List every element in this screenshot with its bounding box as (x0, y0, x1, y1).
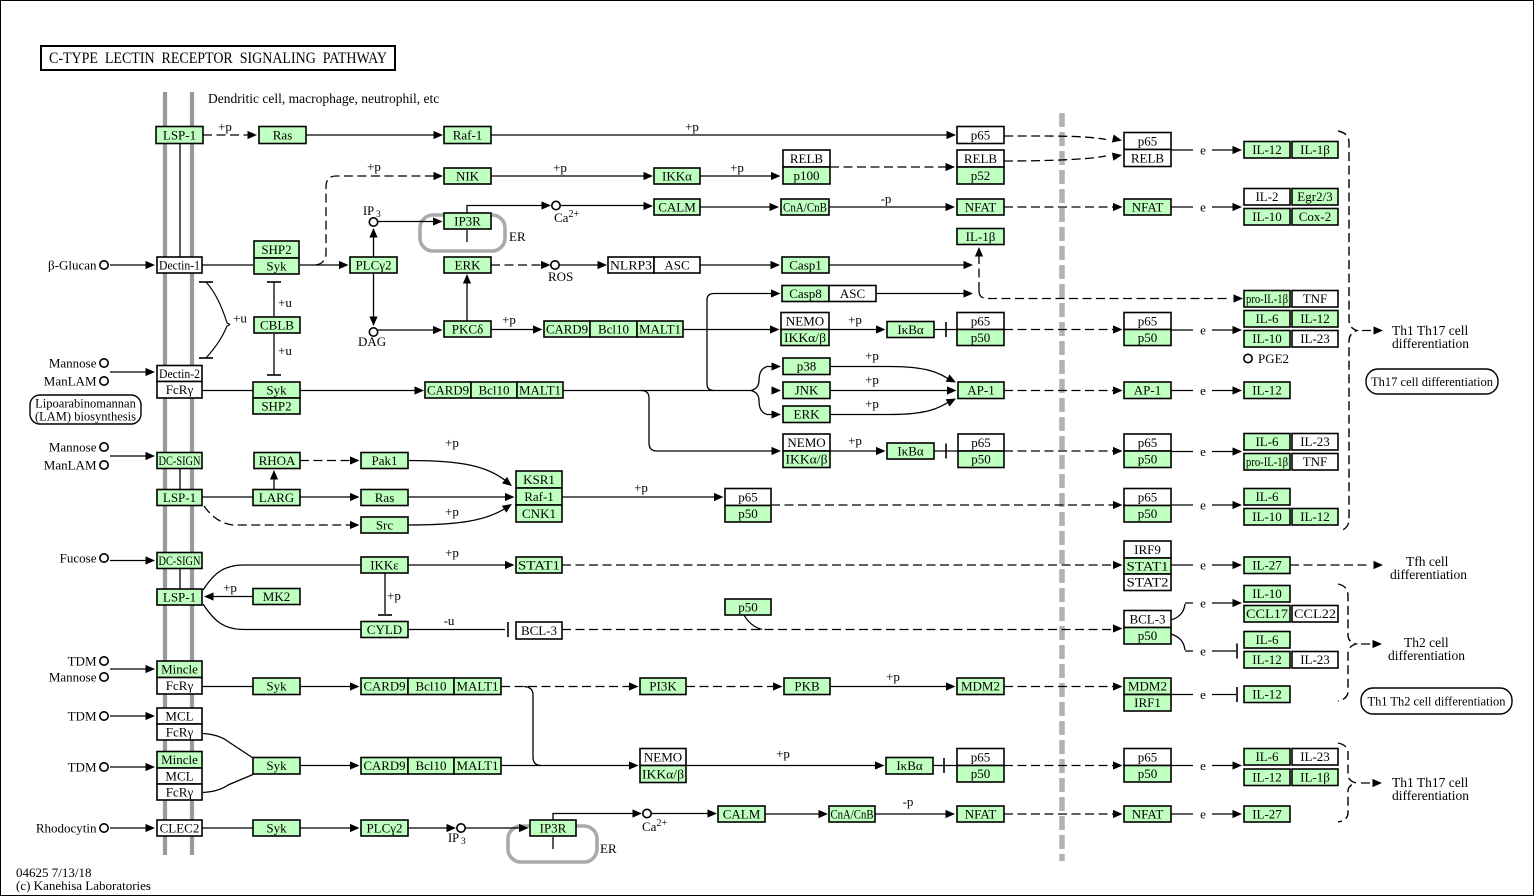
wire ERK to ROS (dashed) (491, 264, 544, 266)
svg-text:IL-6: IL-6 (1255, 311, 1279, 326)
svg-text:ERK: ERK (455, 257, 482, 272)
svg-text:e: e (1200, 644, 1206, 659)
protein p65 d (957, 749, 1004, 766)
nuclear p65 4 (1124, 489, 1171, 506)
svg-text:differentiation: differentiation (1392, 788, 1469, 803)
wire LSP-1b to Src (dashed) (204, 506, 353, 525)
node ROS (551, 261, 559, 269)
wire MK2 to LSP-1c (+p) (210, 596, 253, 598)
svg-text:IL-12: IL-12 (1300, 311, 1330, 326)
svg-text:differentiation: differentiation (1388, 648, 1465, 663)
e arrow to IL-12/IL-1b (1171, 149, 1193, 151)
protein Syk 3 (253, 678, 300, 695)
svg-text:IL-10: IL-10 (1252, 509, 1282, 524)
svg-text:IL-27: IL-27 (1252, 558, 1282, 573)
wire LSP-1b to LARG (202, 496, 253, 498)
cytokine IL-23 c (1292, 652, 1338, 669)
wire CLEC2 to Syk5 (202, 827, 253, 829)
protein Casp8 (782, 286, 829, 302)
svg-text:IL-10: IL-10 (1252, 331, 1282, 346)
protein Syk 2 (253, 382, 300, 398)
protein ASC 2 (829, 286, 876, 302)
svg-text:STAT1: STAT1 (518, 557, 560, 572)
svg-text:IL-1β: IL-1β (1300, 142, 1330, 157)
svg-text:+p: +p (776, 746, 790, 761)
svg-text:p65: p65 (971, 313, 991, 328)
protein p65 c (725, 489, 771, 506)
svg-text:IL-1β: IL-1β (966, 229, 996, 244)
Rhodocytin ligand (100, 824, 108, 832)
svg-text:CARD9: CARD9 (546, 321, 588, 336)
svg-text:p65: p65 (971, 749, 991, 764)
svg-text:Casp1: Casp1 (789, 257, 822, 272)
svg-text:-p: -p (881, 191, 892, 206)
wire Ras to Raf-1 (306, 134, 437, 136)
wire ASC to Casp1 (700, 264, 774, 266)
svg-text:Syk: Syk (266, 758, 287, 773)
svg-text:MALT1: MALT1 (457, 679, 499, 694)
cytokine IL-10 b (1244, 331, 1290, 348)
protein MALT1 2 (517, 382, 563, 398)
protein CALM 2 (718, 806, 765, 822)
dashed rail up to IL-1b (978, 252, 980, 291)
e inhibition to IL-12f (1171, 694, 1193, 696)
wire FcRg4 curve to Syk4 (203, 775, 253, 793)
protein PI3K (640, 678, 686, 695)
svg-text:AP-1: AP-1 (1134, 383, 1161, 398)
cytokine IL-10 d (1244, 586, 1290, 603)
protein MALT1 4 (454, 758, 501, 775)
cytokine IL-12 c (1244, 382, 1290, 399)
svg-text:PI3K: PI3K (649, 679, 677, 694)
wire to MCL (110, 715, 147, 717)
svg-text:Syk: Syk (266, 679, 287, 694)
e arrow to IL-6e group (1171, 765, 1193, 767)
svg-text:Egr2/3: Egr2/3 (1297, 189, 1332, 204)
protein CARD9 2 (425, 382, 471, 398)
wire IKKa to RELB/p100 (700, 175, 774, 177)
wire MALT1-2 rail (563, 390, 751, 392)
wire CALM2 to CnA/CnB2 (765, 813, 822, 815)
svg-text:Syk: Syk (266, 820, 287, 835)
nuclear BCL-3 (1124, 611, 1171, 628)
BCL-3/p50 fork upper (1171, 603, 1193, 620)
protein Bcl10 1 (590, 321, 637, 337)
cytokine IL-6 a (1244, 311, 1290, 328)
svg-text:STAT2: STAT2 (1127, 575, 1169, 590)
protein SHP2 b (253, 398, 300, 414)
svg-text:IL-10: IL-10 (1252, 209, 1282, 224)
svg-text:differentiation: differentiation (1392, 336, 1469, 351)
protein ERK 1 (444, 257, 491, 273)
svg-text:e: e (1200, 383, 1206, 398)
svg-text:p50: p50 (1138, 766, 1158, 781)
wire PKCd up to ERK (466, 278, 468, 321)
svg-text:Dendritic cell, macrophage, ne: Dendritic cell, macrophage, neutrophil, … (208, 91, 439, 106)
svg-text:p100: p100 (794, 168, 820, 183)
CBLB upper link (267, 281, 281, 283)
protein Ras 2 (361, 490, 408, 506)
svg-text:RELB: RELB (1131, 150, 1165, 165)
svg-text:+p: +p (223, 580, 237, 595)
wire MALT1-4 to NEMO-3 (501, 765, 632, 767)
svg-text:Casp8: Casp8 (789, 286, 822, 301)
wire PI3K to PKB (dashed) (686, 686, 776, 688)
svg-text:e: e (1200, 558, 1206, 573)
wire NEMO-3 to IkBa (+p) (686, 765, 878, 767)
wire p65/p50 to nucleus row5 (dashed) (1004, 329, 1116, 331)
svg-text:CARD9: CARD9 (364, 679, 406, 694)
svg-text:Raf-1: Raf-1 (453, 127, 483, 142)
wire PLCg2 down to DAG (373, 274, 375, 321)
svg-text:+p: +p (865, 348, 879, 363)
svg-text:SHP2: SHP2 (261, 398, 291, 413)
wire LSP-1 to Dectin-1 link (179, 143, 181, 257)
protein CYLD (361, 622, 408, 638)
ER organelle 1 (420, 215, 505, 251)
wire Ras2 to Raf-1b (408, 496, 508, 498)
nuclear p50 2 (1124, 330, 1171, 346)
svg-text:BCL-3: BCL-3 (521, 623, 557, 638)
svg-text:p50: p50 (1138, 628, 1158, 643)
protein ASC 1 (654, 257, 700, 273)
svg-text:PLCγ2: PLCγ2 (366, 820, 402, 835)
dashed rail to pro-IL-1b (979, 291, 1231, 299)
svg-text:CBLB: CBLB (260, 317, 294, 332)
svg-text:FcRγ: FcRγ (166, 678, 194, 693)
svg-text:Pak1: Pak1 (372, 453, 398, 468)
svg-text:IL-6: IL-6 (1255, 749, 1279, 764)
svg-text:MALT1: MALT1 (457, 758, 499, 773)
svg-text:IKKα/β: IKKα/β (786, 452, 828, 467)
cytokine IL-6 e (1244, 749, 1290, 766)
protein p50 b (958, 451, 1004, 468)
protein p65 b (958, 434, 1004, 451)
nuclear p50 4 (1124, 506, 1171, 523)
svg-text:IRF9: IRF9 (1134, 542, 1161, 557)
svg-text:+p: +p (685, 119, 699, 134)
svg-text:ASC: ASC (840, 286, 865, 301)
svg-text:NFAT: NFAT (1132, 199, 1164, 214)
protein NFAT 1 (957, 199, 1004, 215)
protein SHP2 a (254, 241, 299, 258)
wire Syk5 to PLCg2b (300, 827, 353, 829)
protein IKKab 1 (781, 330, 829, 346)
e arrow to IL-6b group (1171, 451, 1193, 453)
wire IL-27 to Tfh (dashed) (1290, 564, 1371, 566)
protein PLCg2 a (350, 257, 397, 273)
svg-text:LSP-1: LSP-1 (163, 589, 196, 604)
title box (41, 46, 395, 70)
IkBa1 inhibition tick (934, 329, 956, 331)
wire DC-SIGN to LSP-1b link (179, 468, 181, 489)
svg-text:+p: +p (730, 160, 744, 175)
pathway box Th17 cell differentiation (1366, 369, 1498, 394)
svg-text:MDM2: MDM2 (1128, 679, 1167, 694)
svg-text:FcRγ: FcRγ (166, 784, 194, 799)
receptor MCL 2 (157, 768, 202, 784)
wire Dectin-1 to Syk (202, 264, 253, 266)
svg-text:p50: p50 (738, 506, 758, 521)
svg-text:Mannose: Mannose (49, 440, 97, 455)
svg-text:Raf-1: Raf-1 (524, 489, 554, 504)
protein Raf-1 b (516, 488, 562, 505)
protein IkBa 1 (887, 322, 934, 338)
protein IkBa 3 (886, 758, 933, 775)
IkBa2 inhibition tick (934, 450, 957, 452)
svg-text:(LAM) biosynthesis: (LAM) biosynthesis (35, 409, 136, 423)
svg-text:e: e (1200, 596, 1206, 611)
svg-text:IκBα: IκBα (896, 758, 923, 773)
brace Th2 (1338, 584, 1356, 701)
svg-text:+p: +p (848, 312, 862, 327)
svg-text:IL-23: IL-23 (1300, 331, 1330, 346)
Mannose ligand 3 (100, 673, 108, 681)
wire MALT1-3 to PI3K (dashed) (501, 686, 632, 688)
cytokine TNF b (1292, 454, 1338, 471)
svg-text:IL-12: IL-12 (1252, 770, 1282, 785)
receptor LSP-1 c (157, 589, 202, 605)
svg-text:-u: -u (444, 613, 455, 628)
e arrow to IL-6a group (1171, 329, 1193, 331)
svg-text:IL-6: IL-6 (1255, 434, 1279, 449)
svg-text:+p: +p (445, 504, 459, 519)
svg-text:IP3R: IP3R (540, 820, 567, 835)
svg-text:CARD9: CARD9 (427, 382, 469, 397)
svg-text:NFAT: NFAT (1132, 806, 1164, 821)
svg-text:IKKα/β: IKKα/β (784, 330, 826, 345)
wire LSP-1c down to CYLD (203, 604, 361, 630)
protein PKB (784, 678, 830, 695)
svg-text:C-TYPE LECTIN RECEPTOR SIGN: C-TYPE LECTIN RECEPTOR SIGNALING PATHWAY (49, 50, 387, 67)
protein RHOA (254, 453, 300, 469)
svg-text:3: 3 (376, 210, 381, 220)
svg-text:CYLD: CYLD (367, 622, 402, 637)
nuclear p65 2 (1124, 313, 1171, 330)
wire IP3R-2 to Ca2+ 2 (553, 814, 636, 821)
wire AP-1 to nucleus (dashed) (1004, 390, 1116, 392)
svg-text:e: e (1200, 758, 1206, 773)
svg-text:NIK: NIK (456, 168, 480, 183)
svg-text:MCL: MCL (165, 768, 193, 783)
nuclear p65 5 (1124, 749, 1171, 766)
protein p50 d (957, 766, 1004, 783)
svg-text:p65: p65 (738, 489, 758, 504)
svg-text:3: 3 (461, 837, 466, 847)
receptor FcRg 3 (157, 724, 202, 740)
nuclear membrane (dashed) (1059, 113, 1065, 861)
svg-text:p38: p38 (797, 359, 817, 374)
e arrow to IL-12c (1171, 390, 1193, 392)
svg-text:p50: p50 (971, 452, 991, 467)
svg-text:+p: +p (634, 480, 648, 495)
wire Syk3 to CARD9-3 (300, 686, 353, 688)
svg-text:p65: p65 (1138, 133, 1158, 148)
cytokine IL-23 d (1292, 749, 1338, 766)
svg-text:p52: p52 (971, 168, 991, 183)
svg-text:IκBα: IκBα (897, 443, 924, 458)
svg-text:e: e (1200, 687, 1206, 702)
wire junction up to Casp8 (707, 294, 774, 330)
wire CnA/CnB to NFAT (829, 206, 949, 208)
svg-text:ROS: ROS (548, 269, 573, 284)
protein p50 a (957, 330, 1004, 346)
protein Bcl10 4 (408, 758, 454, 775)
wire IKKe to STAT1 (+p) (408, 564, 508, 566)
svg-text:+u: +u (233, 311, 247, 326)
cytokine IL-12 b (1292, 311, 1338, 328)
PGE2 node (1244, 354, 1252, 362)
wire NIK to IKKa (491, 175, 647, 177)
protein IL-1b float (957, 229, 1004, 245)
svg-text:pro-IL-1β: pro-IL-1β (1246, 291, 1288, 306)
svg-text:Dectin-1: Dectin-1 (159, 257, 200, 272)
fork curve upper to CBLB (206, 282, 230, 325)
svg-text:TNF: TNF (1303, 454, 1328, 469)
nuclear p65 1 (1124, 133, 1171, 150)
svg-text:FcRγ: FcRγ (166, 382, 194, 397)
wire p65/p50 row6 to nucleus (dashed) (1004, 450, 1116, 452)
protein NEMO 1 (781, 313, 829, 330)
svg-text:LSP-1: LSP-1 (163, 490, 196, 505)
svg-text:MCL: MCL (165, 708, 193, 723)
protein NEMO 3 (640, 749, 686, 766)
wire RHOA to Pak1 (dashed) (300, 460, 353, 462)
cytokine IL-12 f (1244, 686, 1290, 703)
svg-text:IL-2: IL-2 (1255, 189, 1278, 204)
svg-text:IL-23: IL-23 (1300, 652, 1330, 667)
svg-text:Lipoarabinomannan: Lipoarabinomannan (35, 396, 136, 410)
wire MALT1 junction (683, 329, 773, 331)
protein AP-1 a (958, 382, 1004, 399)
node IP3 2 (457, 824, 465, 832)
wire p38 to AP-1 (+p) (830, 367, 950, 381)
brace Th1 Th17 upper (1338, 131, 1357, 531)
wire p100 to p52 (dashed) (830, 166, 949, 168)
nuclear IRF1 (1124, 695, 1171, 712)
protein CNK1 (516, 505, 562, 522)
nuclear IRF9 (1124, 541, 1171, 558)
cytokine IL-27 a (1244, 557, 1290, 574)
svg-text:p50: p50 (1138, 506, 1158, 521)
protein Raf-1 a (444, 127, 491, 144)
protein Bcl10 3 (408, 678, 454, 695)
svg-text:AP-1: AP-1 (967, 383, 994, 398)
wire to CLEC2 (110, 827, 147, 829)
TDM ligand 2 (100, 712, 108, 720)
svg-text:Fucose: Fucose (60, 551, 97, 566)
Mannose ligand 2 (100, 443, 108, 451)
svg-text:IL-12: IL-12 (1252, 687, 1282, 702)
wire bGlucan to Dectin-1 (110, 264, 147, 266)
svg-text:CnA/CnB: CnA/CnB (783, 199, 827, 214)
protein Ras 1 (259, 127, 306, 144)
receptor LSP-1 row1 (156, 127, 203, 144)
protein MK2 (253, 589, 300, 605)
wire NFAT to nuclear NFAT (dashed) (1004, 206, 1116, 208)
ER organelle 2 (508, 826, 597, 862)
svg-text:CALM: CALM (723, 806, 761, 821)
protein RELB a (783, 150, 830, 167)
nuclear STAT1 (1124, 558, 1171, 574)
svg-text:LSP-1: LSP-1 (163, 127, 196, 142)
svg-text:p65: p65 (1138, 489, 1158, 504)
protein BCL-3 a (516, 622, 562, 639)
protein p52 (957, 167, 1004, 184)
svg-text:IKKα: IKKα (662, 168, 692, 183)
node Ca2+ 2 (643, 809, 651, 817)
cell membrane (163, 92, 167, 855)
svg-text:Syk: Syk (266, 382, 287, 397)
wire IP3-2 to IP3R-2 (465, 827, 522, 829)
svg-text:Cox-2: Cox-2 (1299, 209, 1332, 224)
wire p65 to nuclear p65 (dashed) (1004, 136, 1106, 140)
protein LARG (253, 490, 300, 506)
svg-text:BCL-3: BCL-3 (1129, 611, 1165, 626)
wire LSP-1 to Ras (dashed +p) (203, 134, 249, 136)
svg-text:Mannose: Mannose (49, 356, 97, 371)
cytokine IL-6 c (1244, 489, 1290, 506)
wire to DC-SIGN2 (110, 560, 147, 562)
protein NLRP3 (608, 257, 654, 273)
svg-text:IL-27: IL-27 (1252, 806, 1282, 821)
svg-text:+p: +p (387, 588, 401, 603)
protein MDM2 a (957, 678, 1004, 695)
svg-text:ASC: ASC (664, 257, 689, 272)
wire to Dectin-2 (110, 371, 147, 373)
svg-text:LARG: LARG (259, 490, 294, 505)
receptor Mincle 1 (157, 661, 202, 678)
IP3R channel tick (466, 230, 468, 242)
svg-text:IKKε: IKKε (370, 557, 399, 572)
wire JNK to AP-1 (+p) (830, 390, 950, 392)
protein CARD9 3 (361, 678, 408, 695)
svg-text:TNF: TNF (1303, 291, 1328, 306)
cytokine IL-1b b (1292, 769, 1338, 786)
svg-text:+p: +p (367, 159, 381, 174)
svg-text:+p: +p (848, 433, 862, 448)
svg-text:+p: +p (218, 119, 232, 134)
protein KSR1 (516, 471, 562, 488)
wire Raf-1 to p65 (491, 134, 950, 136)
fork curve lower to CBLB (206, 325, 230, 359)
svg-text:Ras: Ras (273, 127, 293, 142)
protein Syk 1 (254, 258, 299, 274)
svg-text:NLRP3: NLRP3 (610, 257, 652, 272)
wire DC-SIGN2 to LSP-1c link (179, 568, 181, 589)
svg-text:p65: p65 (971, 127, 991, 142)
protein Src (361, 517, 408, 533)
svg-text:+u: +u (278, 295, 292, 310)
svg-text:e: e (1200, 807, 1206, 822)
svg-text:NEMO: NEMO (786, 313, 824, 328)
protein p50 c (725, 506, 771, 523)
svg-text:CCL22: CCL22 (1294, 606, 1336, 621)
svg-text:e: e (1200, 444, 1206, 459)
node IP3 (369, 218, 377, 226)
svg-text:+p: +p (445, 545, 459, 560)
protein Syk 4 (253, 758, 300, 775)
protein NEMO 2 (783, 434, 830, 451)
wire DAG to PKCd (378, 329, 436, 331)
protein CARD9 1 (544, 321, 590, 337)
wire FcRg2 to Syk3 (202, 686, 253, 688)
svg-text:SHP2: SHP2 (261, 242, 291, 257)
svg-text:IL-12: IL-12 (1300, 509, 1330, 524)
receptor LSP-1 b (157, 490, 202, 506)
svg-text:+p: +p (445, 435, 459, 450)
cytokine IL-12 e (1244, 652, 1290, 669)
